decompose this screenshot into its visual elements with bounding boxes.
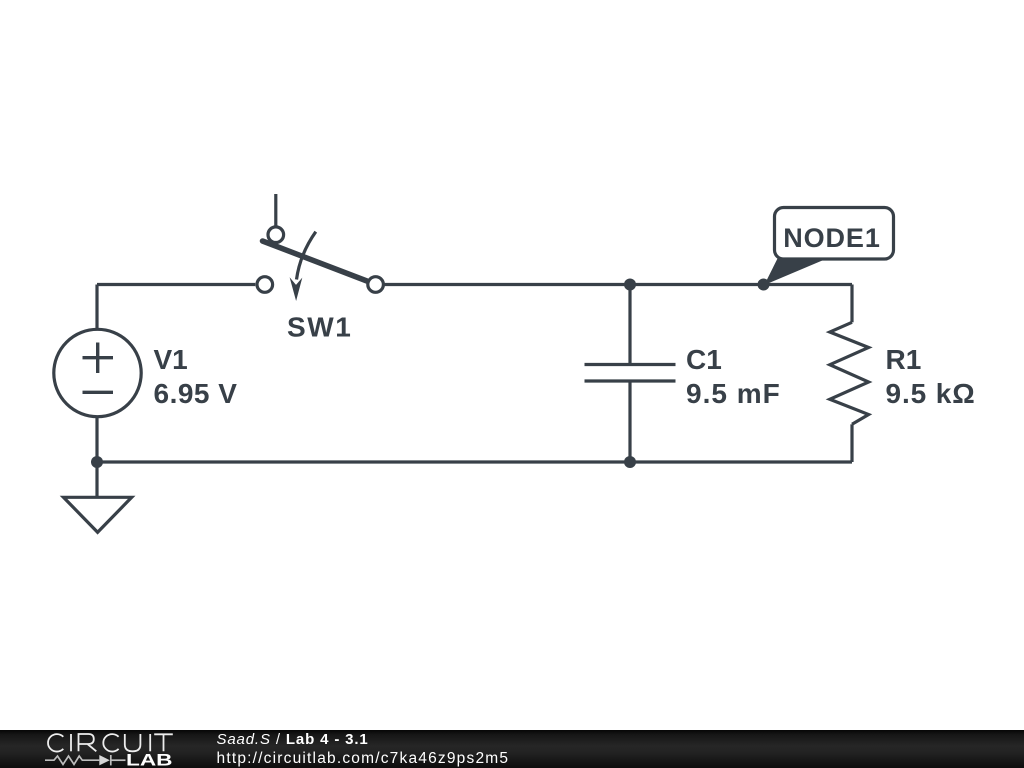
svg-text:9.5 mF: 9.5 mF [686, 378, 781, 409]
svg-text:6.95 V: 6.95 V [154, 378, 238, 409]
svg-text:NODE1: NODE1 [783, 223, 881, 253]
svg-text:9.5 kΩ: 9.5 kΩ [886, 378, 976, 409]
svg-text:LAB: LAB [126, 752, 173, 768]
svg-text:SW1: SW1 [287, 312, 352, 343]
svg-text:R1: R1 [886, 344, 922, 375]
svg-text:V1: V1 [154, 344, 188, 375]
svg-text:C1: C1 [686, 344, 722, 375]
